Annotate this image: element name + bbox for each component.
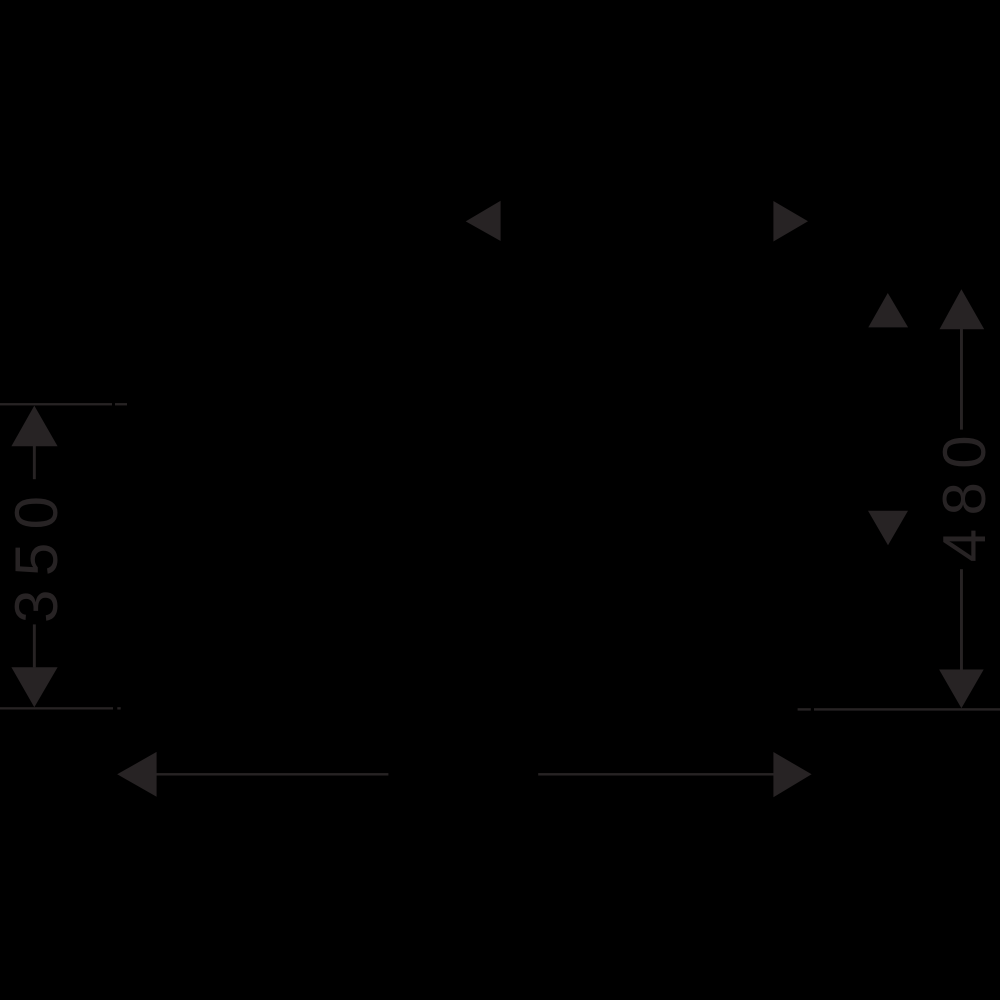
dimension 480 stem lower <box>960 569 963 670</box>
extension line left bottom dash <box>117 707 120 709</box>
bottom dimension arrow right <box>773 752 811 797</box>
svg-text:350: 350 <box>3 483 70 623</box>
extension line left top dash <box>115 403 127 405</box>
bottom dimension line right segment <box>538 773 774 775</box>
arrow left-pointer top <box>466 201 501 241</box>
extension line right dash <box>798 708 811 710</box>
dimension 350 stem lower <box>33 624 36 667</box>
extension line left bottom <box>0 707 113 709</box>
arrow right-pointer top <box>773 201 808 242</box>
dimension 480 stem upper <box>960 329 963 430</box>
dimension 480 arrow up <box>940 289 985 329</box>
dimension 480 arrow down <box>939 670 984 709</box>
svg-text:480: 480 <box>931 422 998 562</box>
extension line right <box>814 708 1000 710</box>
dimension 350 arrow down <box>11 667 57 707</box>
bottom dimension arrow left <box>117 752 156 797</box>
arrow up-pointer right <box>868 293 908 327</box>
dimension 350 arrow up <box>11 406 57 447</box>
arrow down-pointer right <box>868 511 908 545</box>
dimension 350 stem upper <box>33 446 36 479</box>
bottom dimension line left segment <box>156 773 388 775</box>
extension line left top <box>0 403 112 405</box>
